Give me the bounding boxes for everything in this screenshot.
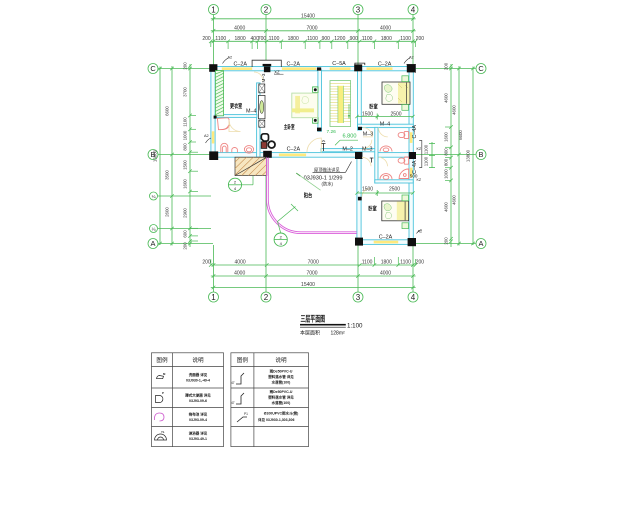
svg-text:900: 900: [350, 36, 359, 42]
stair left wall: [318, 70, 322, 131]
left chain ticks x=190: [188, 64, 192, 68]
window C-2A top2: [282, 67, 316, 70]
svg-text:蹲式大便器 详见: 蹲式大便器 详见: [185, 393, 211, 398]
svg-text:6.800: 6.800: [343, 134, 357, 140]
right mid ticks x=459,473: [457, 67, 461, 71]
svg-text:1600: 1600: [444, 132, 449, 142]
svg-text:C–4A: C–4A: [412, 160, 418, 174]
svg-text:¼: ¼: [152, 227, 156, 232]
svg-text:本层面积: 本层面积: [300, 329, 320, 336]
svg-text:200: 200: [183, 62, 188, 70]
svg-text:2: 2: [264, 5, 269, 14]
svg-text:1600: 1600: [183, 179, 188, 189]
left table rows: [185, 372, 211, 441]
svg-text:47: 47: [231, 381, 235, 385]
svg-text:200: 200: [444, 237, 449, 245]
svg-text:7.26: 7.26: [327, 129, 337, 135]
svg-text:XZ: XZ: [274, 70, 280, 75]
svg-text:1000: 1000: [183, 130, 188, 140]
svg-text:三层平面图: 三层平面图: [301, 315, 326, 324]
junction dot: [214, 116, 217, 119]
svg-text:A: A: [151, 239, 156, 248]
svg-text:200: 200: [416, 36, 425, 42]
right exterior wall upper: [409, 67, 413, 246]
svg-text:128m²: 128m²: [331, 330, 346, 336]
wing bottom wall: [357, 240, 413, 245]
green texts: [327, 129, 337, 135]
svg-text:1500: 1500: [362, 187, 373, 193]
svg-text:200: 200: [202, 260, 211, 266]
svg-text:洗面器 详见: 洗面器 详见: [189, 372, 208, 377]
top row ticks 4000/7000/4000: [212, 29, 216, 33]
svg-text:KZ: KZ: [417, 147, 422, 151]
bath left wall: [375, 127, 378, 183]
svg-text:700: 700: [258, 36, 267, 42]
grid bubbles top: [209, 5, 419, 15]
svg-text:C: C: [150, 64, 156, 73]
svg-text:4000: 4000: [234, 26, 245, 32]
svg-text:主卧室: 主卧室: [284, 123, 295, 131]
left table symbols: [155, 376, 167, 441]
svg-text:1800: 1800: [381, 260, 392, 266]
svg-text:1100: 1100: [269, 36, 280, 42]
bottom dimension lines: [211, 265, 416, 288]
svg-text:200: 200: [416, 260, 425, 266]
dark appliance cluster next to wall g2: [261, 134, 275, 149]
svg-text:3: 3: [356, 5, 361, 14]
svg-text:03J93-09-6: 03J93-09-6: [189, 399, 207, 403]
column g4/B: [409, 152, 416, 159]
grid bubbles right: [476, 64, 486, 249]
svg-text:1100: 1100: [400, 36, 411, 42]
left dimension lines: [160, 64, 190, 247]
svg-text:KZ: KZ: [417, 178, 422, 182]
svg-text:说明: 说明: [275, 356, 287, 364]
svg-text:800: 800: [444, 158, 449, 166]
svg-text:P1: P1: [244, 412, 248, 416]
left dim texts (rotated): [153, 62, 188, 250]
svg-text:1800: 1800: [288, 36, 299, 42]
stair treads: [330, 84, 351, 122]
svg-text:图例: 图例: [237, 356, 249, 364]
svg-text:C–2A: C–2A: [287, 146, 301, 152]
top dim text row 4000/7000/4000: [234, 26, 391, 32]
small col stair top-left: [317, 67, 321, 70]
column g1/B: [209, 151, 218, 160]
svg-text:2500: 2500: [389, 187, 400, 193]
svg-text:阳台: 阳台: [304, 191, 313, 199]
balcony note text: [296, 162, 351, 191]
bed rooms divider wall y124-127.5: [358, 124, 414, 127]
room labels: [230, 102, 378, 212]
svg-text:拖布池 详见: 拖布池 详见: [188, 412, 208, 417]
svg-text:1100: 1100: [307, 36, 318, 42]
svg-text:塑料落水管 详见: 塑料落水管 详见: [268, 374, 294, 379]
window C-5A stair: [330, 67, 351, 70]
svg-text:4000: 4000: [380, 271, 391, 277]
stair center yellow band: [338, 86, 344, 123]
lower bath: toilet, shower, sink: [380, 157, 409, 179]
bed upper bedroom: [382, 76, 410, 111]
window B-wall C-2A: [279, 154, 306, 157]
column g1/C: [209, 64, 217, 72]
svg-text:M–2: M–2: [342, 147, 353, 153]
dressing/bath divider horizontal (y114-117): [215, 115, 257, 118]
svg-text:1800: 1800: [381, 36, 392, 42]
svg-text:2600: 2600: [165, 207, 170, 217]
svg-text:4000: 4000: [234, 271, 245, 277]
svg-text:3500: 3500: [165, 170, 170, 180]
wing left wall: [357, 154, 361, 245]
svg-text:7000: 7000: [306, 26, 317, 32]
svg-text:2500: 2500: [390, 111, 401, 117]
svg-text:800: 800: [444, 148, 449, 156]
svg-text:C–2A: C–2A: [234, 61, 248, 67]
top-right parapet hat: [355, 63, 365, 65]
small col stair bottom-right: [358, 127, 362, 130]
top small chain ticks: [209, 40, 213, 44]
grid bubbles left: [148, 64, 158, 249]
detail circle 2: [274, 204, 298, 246]
right dimension lines: [451, 64, 473, 247]
grid bubbles bottom: [209, 292, 419, 302]
svg-text:C: C: [478, 64, 484, 73]
svg-text:详见 03J930-1,303,306: 详见 03J930-1,303,306: [258, 417, 294, 422]
detail circle 1: [228, 176, 253, 191]
top dimension lines: [211, 19, 416, 42]
svg-text:1100: 1100: [424, 156, 429, 166]
master bed (pale, against stair wall): [292, 93, 318, 118]
svg-text:雨De50PVC-U: 雨De50PVC-U: [270, 389, 293, 394]
svg-text:7000: 7000: [308, 260, 319, 266]
window C-2A top3: [367, 67, 393, 70]
left mid ticks x=172: [170, 67, 174, 71]
svg-text:卧室: 卧室: [369, 102, 378, 110]
svg-text:03J93-09-4: 03J93-09-4: [189, 418, 207, 422]
svg-text:YL: YL: [161, 430, 165, 434]
svg-text:4600: 4600: [452, 105, 457, 115]
svg-text:C–2A: C–2A: [378, 61, 392, 67]
svg-text:3700: 3700: [183, 87, 188, 97]
svg-text:C–5A: C–5A: [332, 61, 346, 67]
bottom chain ticks: [209, 263, 213, 267]
column g2/B: [263, 151, 272, 158]
svg-text:C–2A: C–2A: [379, 234, 393, 240]
column g4/A: [408, 238, 416, 246]
svg-text:说明: 说明: [192, 356, 204, 364]
svg-text:03J930-1,-49-4: 03J930-1,-49-4: [186, 379, 210, 383]
upper bath: toilet right: [380, 131, 409, 151]
svg-text:M–3: M–3: [261, 73, 266, 82]
svg-text:4000: 4000: [235, 260, 246, 266]
svg-text:15400: 15400: [301, 14, 315, 20]
svg-text:1100: 1100: [424, 144, 429, 154]
window right wall C-4A upper: [410, 132, 413, 143]
svg-text:1500: 1500: [183, 160, 188, 170]
B-axis wall: [211, 153, 362, 158]
svg-text:1100: 1100: [183, 117, 188, 127]
svg-text:塑料落水管 详见: 塑料落水管 详见: [268, 395, 294, 400]
svg-text:1: 1: [211, 293, 216, 302]
svg-text:A2: A2: [204, 134, 209, 138]
window wing bottom C-2A: [374, 241, 399, 244]
right chain ticks x=451: [449, 64, 453, 68]
bottom chain stubs: [210, 259, 212, 265]
green dot boxes on stair wall: [313, 87, 318, 123]
svg-text:47: 47: [231, 401, 235, 405]
svg-text:1100: 1100: [400, 260, 411, 266]
svg-text:P: P: [162, 391, 164, 395]
svg-text:1: 1: [211, 5, 216, 14]
svg-text:B: B: [479, 150, 484, 159]
svg-text:4000: 4000: [380, 26, 391, 32]
svg-text:C–2A: C–2A: [287, 61, 301, 67]
black bracket right of wall: [419, 141, 422, 168]
svg-text:4: 4: [411, 293, 416, 302]
column g2/C: [263, 64, 272, 66]
svg-text:2900: 2900: [183, 208, 188, 218]
svg-text:A: A: [479, 239, 484, 248]
svg-text:200: 200: [183, 242, 188, 250]
canopy outline box top: [252, 60, 281, 67]
interior dims 1500/2500 lower: [355, 190, 414, 196]
svg-text:A2: A2: [418, 230, 423, 234]
bottom mid/total ticks: [212, 274, 216, 278]
svg-text:A2: A2: [409, 56, 414, 60]
svg-text:6600: 6600: [458, 130, 463, 140]
svg-text:M–4: M–4: [380, 121, 391, 127]
left chain stubs: [190, 114, 196, 116]
svg-text:Ø100UPVC雨水斗(管): Ø100UPVC雨水斗(管): [264, 411, 299, 416]
stair outline: [330, 81, 351, 127]
window C-2A top1: [222, 67, 252, 70]
svg-text:淋浴器 详见: 淋浴器 详见: [189, 431, 208, 436]
svg-text:1800: 1800: [235, 36, 246, 42]
svg-text:1000: 1000: [444, 169, 449, 179]
column g3/C: [354, 64, 362, 71]
small col stair bottom-left: [317, 128, 321, 132]
small col wing wall: [358, 197, 362, 201]
svg-text:卧室: 卧室: [368, 204, 377, 212]
sliding door cabinet between flues: [258, 95, 265, 118]
svg-text:03J93-49-1: 03J93-49-1: [189, 437, 207, 441]
stair right wall: [358, 70, 362, 130]
top row ticks 15400: [212, 17, 216, 21]
grid axis horizontals: [158, 69, 476, 244]
svg-text:A2: A2: [228, 56, 233, 60]
svg-text:M–4: M–4: [246, 109, 257, 115]
interior dims 1500/2500 upper: [355, 114, 414, 120]
top small dims: [202, 36, 424, 42]
svg-text:雨De50PVC-U: 雨De50PVC-U: [270, 369, 293, 374]
svg-text:7000: 7000: [306, 271, 317, 277]
dressing room wall vertical: [257, 83, 260, 157]
window right wall C-4A lower: [410, 168, 413, 178]
svg-text:4600: 4600: [452, 195, 457, 205]
dim ticks + extension stubs: [212, 17, 415, 33]
svg-text:900: 900: [322, 36, 331, 42]
svg-text:2: 2: [264, 293, 269, 302]
A2 flags: [206, 58, 422, 234]
svg-text:4600: 4600: [444, 202, 449, 212]
bottom dims: [202, 260, 424, 266]
bath bottom wall: [375, 180, 413, 183]
column g3/B: [355, 152, 362, 159]
svg-text:1200: 1200: [334, 36, 345, 42]
window left wall: [212, 131, 215, 143]
svg-text:800: 800: [183, 143, 188, 151]
right table symbols: [236, 373, 247, 422]
top chain stubs: [210, 41, 212, 47]
right chain stubs: [445, 126, 451, 128]
right 1100/1100 small dim near bath: [429, 142, 435, 168]
svg-text:13800: 13800: [466, 149, 471, 162]
svg-text:15400: 15400: [301, 282, 315, 288]
left exterior wall: [211, 67, 215, 158]
svg-text:水落管(100): 水落管(100): [271, 400, 291, 405]
svg-text:200: 200: [444, 62, 449, 70]
stair arrow: [348, 104, 350, 119]
corridor bottom wall (y148.5-151.5 from stair to bath): [321, 149, 375, 152]
column g3/A: [355, 238, 363, 246]
svg-text:3: 3: [356, 293, 361, 302]
column g4/C: [407, 64, 415, 72]
fixtures along B wall (toilet,bidet,sink): [221, 143, 254, 153]
bed lower bedroom: [382, 195, 409, 229]
svg-text:6600: 6600: [165, 106, 170, 116]
svg-text:4600: 4600: [444, 93, 449, 103]
svg-text:1500: 1500: [362, 111, 373, 117]
svg-text:(防水): (防水): [322, 180, 334, 187]
svg-text:¼: ¼: [152, 194, 156, 199]
svg-text:C–4A: C–4A: [412, 125, 418, 139]
top exterior wall: [211, 67, 415, 71]
svg-text:13800: 13800: [153, 149, 158, 162]
svg-text:M–3: M–3: [362, 147, 373, 153]
door jamb mark near M-2: [322, 141, 374, 163]
svg-text:水落管(100): 水落管(100): [271, 380, 291, 385]
svg-text:1100: 1100: [362, 36, 373, 42]
right table rows: [264, 369, 299, 416]
svg-text:200: 200: [202, 36, 211, 42]
svg-text:更衣室: 更衣室: [230, 102, 242, 110]
right dim texts: [444, 62, 471, 244]
svg-text:600: 600: [183, 230, 188, 238]
basin dressing room: [217, 118, 229, 130]
svg-text:4: 4: [411, 5, 416, 14]
svg-text:1100: 1100: [362, 260, 373, 266]
grid axis verticals top: [214, 15, 414, 293]
svg-text:1100: 1100: [215, 36, 226, 42]
svg-text:1:100: 1:100: [347, 323, 363, 330]
svg-text:图例: 图例: [156, 356, 168, 364]
svg-text:M–3: M–3: [363, 132, 374, 138]
